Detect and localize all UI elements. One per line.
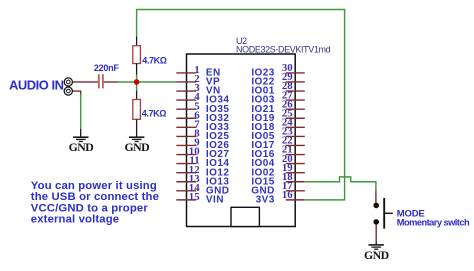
pin 7 IO33: [176, 118, 229, 133]
pin 30 IO23: [251, 62, 304, 78]
svg-text:GND: GND: [125, 140, 150, 154]
pin 8 IO25: [176, 127, 229, 142]
svg-text:VCC/GND to a proper: VCC/GND to a proper: [31, 202, 149, 214]
junction node VP: [134, 79, 140, 85]
pin 9 IO26: [176, 137, 229, 152]
wire IO15 to switch (with hop over 3V3): [305, 177, 376, 190]
connector J1 AUDIO IN: [64, 78, 85, 95]
wire junction to bottom resistor: [136, 74, 138, 91]
ground GND1: [73, 137, 88, 141]
wire audio ground: connector to GND: [73, 91, 81, 137]
ground GND2: [129, 137, 144, 141]
svg-text:4.7KΩ: 4.7KΩ: [142, 109, 166, 119]
pin 19 IO02: [251, 162, 304, 178]
svg-text:external voltage: external voltage: [31, 214, 119, 226]
pin 24 IO18: [251, 117, 304, 133]
svg-text:16: 16: [282, 189, 293, 201]
pin 22 IO17: [251, 135, 304, 151]
svg-text:15: 15: [189, 191, 200, 203]
ground GND3: [369, 245, 384, 249]
wire switch to GND3: [375, 241, 377, 245]
pin 27 IO03: [251, 89, 304, 105]
switch S1 momentary: [373, 190, 392, 241]
IC U2 box: [187, 54, 296, 227]
pin 5 IO35: [176, 100, 229, 115]
pin 14 GND: [176, 182, 229, 197]
pin 10 IO27: [176, 146, 229, 161]
svg-text:220nF: 220nF: [94, 63, 120, 73]
pin 18 IO15: [251, 171, 304, 187]
svg-text:You can power it using: You can power it using: [31, 180, 157, 192]
pin 1 EN: [176, 64, 220, 79]
pin 28 IO01: [251, 80, 304, 96]
svg-text:Momentary switch: Momentary switch: [397, 218, 470, 228]
resistor R1 4.7K (top): [133, 36, 141, 74]
svg-text:GND: GND: [364, 248, 389, 262]
pin 2 VP: [176, 73, 220, 88]
pin 3 VN: [176, 82, 220, 97]
svg-text:VIN: VIN: [206, 194, 224, 205]
pin 16 3V3: [256, 189, 305, 205]
svg-text:GND: GND: [69, 140, 94, 154]
pin 26 IO21: [251, 98, 304, 114]
pin 23 IO05: [251, 126, 304, 142]
svg-text:NODE32S-DEVKITV1md: NODE32S-DEVKITV1md: [236, 45, 331, 55]
pin 13 IO13: [176, 173, 229, 188]
svg-text:4.7KΩ: 4.7KΩ: [142, 55, 166, 65]
resistor R2 4.7K (bottom): [133, 91, 141, 138]
pin 17 GND: [251, 180, 305, 196]
pin 21 IO16: [251, 144, 304, 160]
pin 20 IO04: [251, 153, 304, 169]
capacitor C1 220nF: [85, 74, 118, 88]
pin 6 IO32: [176, 109, 229, 124]
svg-text:the USB or connect the: the USB or connect the: [31, 191, 159, 203]
pin 15 VIN: [176, 191, 224, 206]
pin 25 IO19: [251, 107, 304, 123]
wire 3V3 bus: resistor top to pin16: [137, 10, 345, 200]
pin 29 IO22: [251, 71, 304, 87]
svg-text:3V3: 3V3: [256, 194, 275, 205]
pin 11 IO14: [176, 155, 229, 170]
svg-text:AUDIO IN: AUDIO IN: [9, 77, 64, 92]
wire VP net: cap to junction to pin2: [117, 81, 176, 83]
pin 12 IO12: [176, 164, 229, 179]
note text: [31, 180, 159, 226]
pin 4 IO34: [176, 91, 229, 106]
